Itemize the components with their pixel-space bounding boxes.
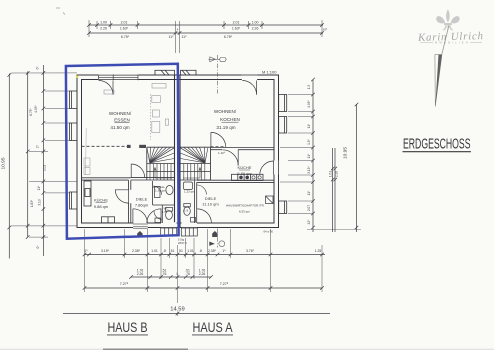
bottom dim row 2 [129, 275, 213, 279]
bottom extension lines [85, 229, 323, 316]
svg-text:L: L [177, 272, 179, 276]
stair treads Haus A [180, 147, 208, 180]
svg-text:6.75⁵: 6.75⁵ [121, 35, 130, 39]
kitchen top wall Haus B [82, 178, 131, 180]
svg-text:42⁵: 42⁵ [307, 219, 311, 225]
bottom dim row 1 [83, 253, 325, 257]
svg-text:4.93⁵: 4.93⁵ [34, 105, 38, 113]
svg-text:11⁵: 11⁵ [307, 123, 311, 128]
kitchen top wall Haus A [211, 148, 275, 150]
beam dashed line Haus B living [82, 145, 128, 147]
stair arrow Haus A [183, 168, 201, 179]
bottom row3 numbers [120, 282, 229, 286]
label KUECHE Haus B [94, 198, 109, 210]
svg-text:M 1:100: M 1:100 [262, 70, 277, 75]
svg-text:1⁵: 1⁵ [84, 249, 88, 253]
top dim row 2 [87, 31, 324, 35]
wall under stairs Haus B [131, 178, 175, 180]
svg-text:2.26: 2.26 [137, 272, 144, 276]
svg-text:1.36 qm: 1.36 qm [155, 189, 166, 193]
svg-text:1.63⁵: 1.63⁵ [30, 199, 34, 207]
svg-text:6.53 qm: 6.53 qm [239, 210, 250, 214]
svg-text:3.15⁵: 3.15⁵ [101, 249, 110, 253]
label HAUS A [192, 320, 233, 335]
label wc Haus A [184, 190, 195, 213]
svg-text:11⁵: 11⁵ [37, 185, 41, 190]
closet door Haus B [153, 186, 162, 195]
right extension lines [280, 95, 313, 214]
svg-text:1.10⁵: 1.10⁵ [218, 151, 226, 155]
svg-text:3.13: 3.13 [37, 199, 41, 205]
storage fixture Haus B [155, 185, 174, 197]
svg-text:2.26: 2.26 [100, 26, 107, 30]
svg-text:10.95: 10.95 [0, 157, 6, 169]
svg-text:6.75⁵: 6.75⁵ [29, 108, 33, 116]
svg-text:2.26: 2.26 [335, 171, 339, 177]
north needle [435, 26, 449, 107]
logo fleur-de-lis [436, 9, 459, 31]
right dim line [311, 78, 315, 232]
left dim line 1 [8, 73, 12, 258]
svg-text:9.88 qm: 9.88 qm [94, 204, 109, 209]
stair treads Haus B [147, 147, 174, 180]
bottom row2 numbers [137, 268, 206, 276]
kitchen door Haus A [222, 150, 238, 166]
left dim line 3 [42, 65, 46, 256]
closet walls under stairs Haus B [153, 181, 175, 223]
dimension lines [0, 20, 361, 259]
svg-text:IMMOBILIEN: IMMOBILIEN [432, 41, 470, 45]
entry door arc Haus A [197, 209, 211, 223]
svg-text:41.50 qm: 41.50 qm [110, 125, 129, 130]
label WC Haus B [162, 207, 169, 215]
svg-text:11⁵: 11⁵ [168, 35, 174, 39]
bottom dim row 3 [83, 286, 324, 290]
svg-text:1.01: 1.01 [329, 171, 333, 177]
svg-text:6.75⁵: 6.75⁵ [224, 35, 233, 39]
svg-text:11.10 qm: 11.10 qm [202, 202, 219, 207]
svg-text:WOHNEN/: WOHNEN/ [214, 109, 237, 114]
svg-text:1.5⁵: 1.5⁵ [307, 138, 311, 144]
svg-text:11⁵: 11⁵ [181, 35, 187, 39]
kitchen counter Haus A [232, 174, 264, 180]
yellow highlight dot [76, 76, 79, 78]
svg-text:ERDGESCHOSS: ERDGESCHOSS [403, 136, 471, 153]
wall pier 2 [139, 145, 146, 148]
svg-text:2.38⁵: 2.38⁵ [132, 249, 141, 253]
top extension lines [89, 20, 322, 53]
svg-text:2.01: 2.01 [121, 21, 128, 25]
bottom row1 numbers [84, 249, 321, 253]
wc fixture Haus B [155, 208, 173, 223]
svg-text:1.5: 1.5 [162, 210, 167, 214]
svg-text:KÜCHE: KÜCHE [237, 165, 251, 170]
svg-text:3.13⁵: 3.13⁵ [307, 166, 311, 174]
label stoop note [178, 238, 187, 245]
svg-text:1.01: 1.01 [187, 249, 194, 253]
wc door Haus B [154, 211, 162, 220]
entry marker Haus B [137, 231, 142, 237]
blue highlight rectangle Haus B [66, 64, 179, 239]
section marker bottom [209, 229, 224, 248]
svg-text:7.27⁵: 7.27⁵ [220, 282, 229, 286]
svg-text:1.00: 1.00 [100, 21, 107, 25]
entry stoop Haus B [161, 228, 177, 236]
kitchen counter Haus B [84, 181, 115, 223]
entry stoop Haus A [181, 228, 197, 236]
entry marker Haus A [212, 231, 217, 237]
svg-text:.76: .76 [185, 272, 190, 276]
label DIELE Haus A [202, 196, 219, 207]
door living to hall Haus B [131, 164, 144, 177]
label KUECHE Haus A [237, 165, 252, 176]
dashed beam Haus A [211, 145, 226, 147]
door arc top Haus A [242, 81, 256, 95]
right dim double line [331, 148, 337, 232]
window band top wall Haus B [99, 75, 139, 81]
window sill boxes right wall [279, 95, 287, 214]
wc fixtures Haus A [184, 182, 196, 222]
top dim row 1 [87, 23, 324, 27]
bottom dim row 4 [63, 312, 330, 316]
svg-text:63⁵: 63⁵ [323, 28, 327, 32]
svg-text:1.63⁵: 1.63⁵ [232, 26, 241, 30]
svg-text:11⁵: 11⁵ [307, 190, 311, 195]
right dim outer line [307, 103, 361, 232]
svg-text:64 a´60: 64 a´60 [264, 230, 274, 234]
svg-text:2.38⁵: 2.38⁵ [208, 249, 217, 253]
opening outer lines [161, 75, 279, 228]
svg-text:2.01: 2.01 [233, 21, 240, 25]
window sill boxes left wall [70, 91, 78, 209]
bottom dims [63, 229, 330, 316]
svg-text:.76: .76 [162, 272, 167, 276]
svg-text:10.95: 10.95 [343, 147, 349, 159]
right dim numbers [307, 85, 311, 225]
svg-text:KÜCHE: KÜCHE [94, 198, 108, 203]
stair arrow Haus B [154, 168, 172, 179]
left extension lines [11, 73, 77, 237]
scan specks top left [56, 8, 65, 15]
wall openings (white) [98, 74, 279, 228]
svg-text:9.89 qm: 9.89 qm [237, 171, 252, 176]
entry door arc Haus B [147, 209, 161, 223]
scan edge bottom [0, 349, 494, 350]
svg-text:HAUS A: HAUS A [193, 320, 233, 335]
svg-text:1.63⁵: 1.63⁵ [120, 26, 129, 30]
label WOHNEN/KOCHEN Haus A [214, 109, 240, 130]
svg-text:1.23 qm: 1.23 qm [184, 190, 195, 194]
door arc top Haus B [99, 81, 113, 95]
top dim numbers [100, 21, 327, 39]
svg-text:1.00: 1.00 [252, 21, 259, 25]
hwr fixture Haus A [266, 196, 274, 204]
svg-text:1⁵: 1⁵ [222, 249, 226, 253]
stair box Haus A [180, 147, 211, 180]
hwr door Haus A [197, 185, 207, 195]
logo subtitle [420, 41, 482, 45]
svg-text:.8: .8 [163, 249, 166, 253]
svg-text:3.76⁵: 3.76⁵ [246, 249, 255, 253]
kitchen door Haus B [115, 190, 128, 203]
label DIELE Haus B [135, 197, 149, 208]
svg-text:4.93⁵: 4.93⁵ [307, 100, 311, 108]
svg-text:51: 51 [171, 249, 175, 253]
svg-text:DIELE: DIELE [136, 197, 148, 202]
svg-text:51: 51 [179, 249, 183, 253]
left dim line 2 numbers [29, 108, 34, 208]
svg-text:2.01: 2.01 [43, 165, 47, 171]
svg-text:1.25: 1.25 [315, 249, 322, 253]
svg-text:ESSEN: ESSEN [114, 118, 130, 123]
room labels [94, 70, 277, 245]
svg-text:2.26: 2.26 [199, 272, 206, 276]
label ABSTELL Haus B [152, 185, 166, 193]
svg-text:1.9: 1.9 [184, 209, 189, 213]
svg-text:2.26: 2.26 [252, 26, 259, 30]
section marker top [209, 55, 227, 94]
stair box Haus B [147, 147, 175, 180]
svg-text:1.5: 1.5 [307, 85, 311, 90]
door stairs to living Haus A [211, 132, 226, 147]
label HAUS B [107, 320, 148, 335]
svg-text:KOCHEN: KOCHEN [220, 117, 240, 122]
side door arc right wall Haus A [260, 161, 274, 175]
left dim line 3 numbers [34, 66, 47, 249]
svg-text:7.27⁵: 7.27⁵ [120, 282, 129, 286]
hwr wall Haus A [194, 180, 196, 223]
svg-text:WOHNEN/: WOHNEN/ [109, 111, 132, 116]
wall pier 1 [127, 145, 131, 148]
svg-text:HAUSWIRTSCHAFTSR./TR: HAUSWIRTSCHAFTSR./TR [226, 204, 265, 208]
svg-text:2.07: 2.07 [307, 205, 311, 211]
kitchen right wall Haus B [129, 180, 131, 223]
label HWR Haus A [226, 204, 265, 214]
svg-text:11⁵: 11⁵ [307, 153, 311, 158]
svg-text:.8: .8 [199, 249, 202, 253]
right dim pair numbers [329, 171, 339, 177]
svg-text:14.59: 14.59 [170, 307, 185, 313]
svg-text:1.01: 1.01 [151, 249, 158, 253]
left dim line 2 [26, 71, 30, 239]
furniture living Haus B [84, 84, 169, 176]
title ERDGESCHOSS [403, 136, 471, 153]
svg-text:31.19 qm: 31.19 qm [216, 125, 235, 130]
label WOHNEN/ESSEN Haus B [109, 111, 132, 130]
svg-text:7.86qm: 7.86qm [135, 203, 149, 208]
chimney boxes on top wall [155, 70, 196, 75]
outer wall [77, 75, 279, 228]
svg-text:DIELE: DIELE [205, 196, 217, 201]
terrace door Haus B [133, 209, 148, 229]
svg-text:HAUS B: HAUS B [108, 320, 148, 335]
kitchen bottom wall Haus A [197, 180, 274, 182]
party wall [175, 75, 181, 228]
